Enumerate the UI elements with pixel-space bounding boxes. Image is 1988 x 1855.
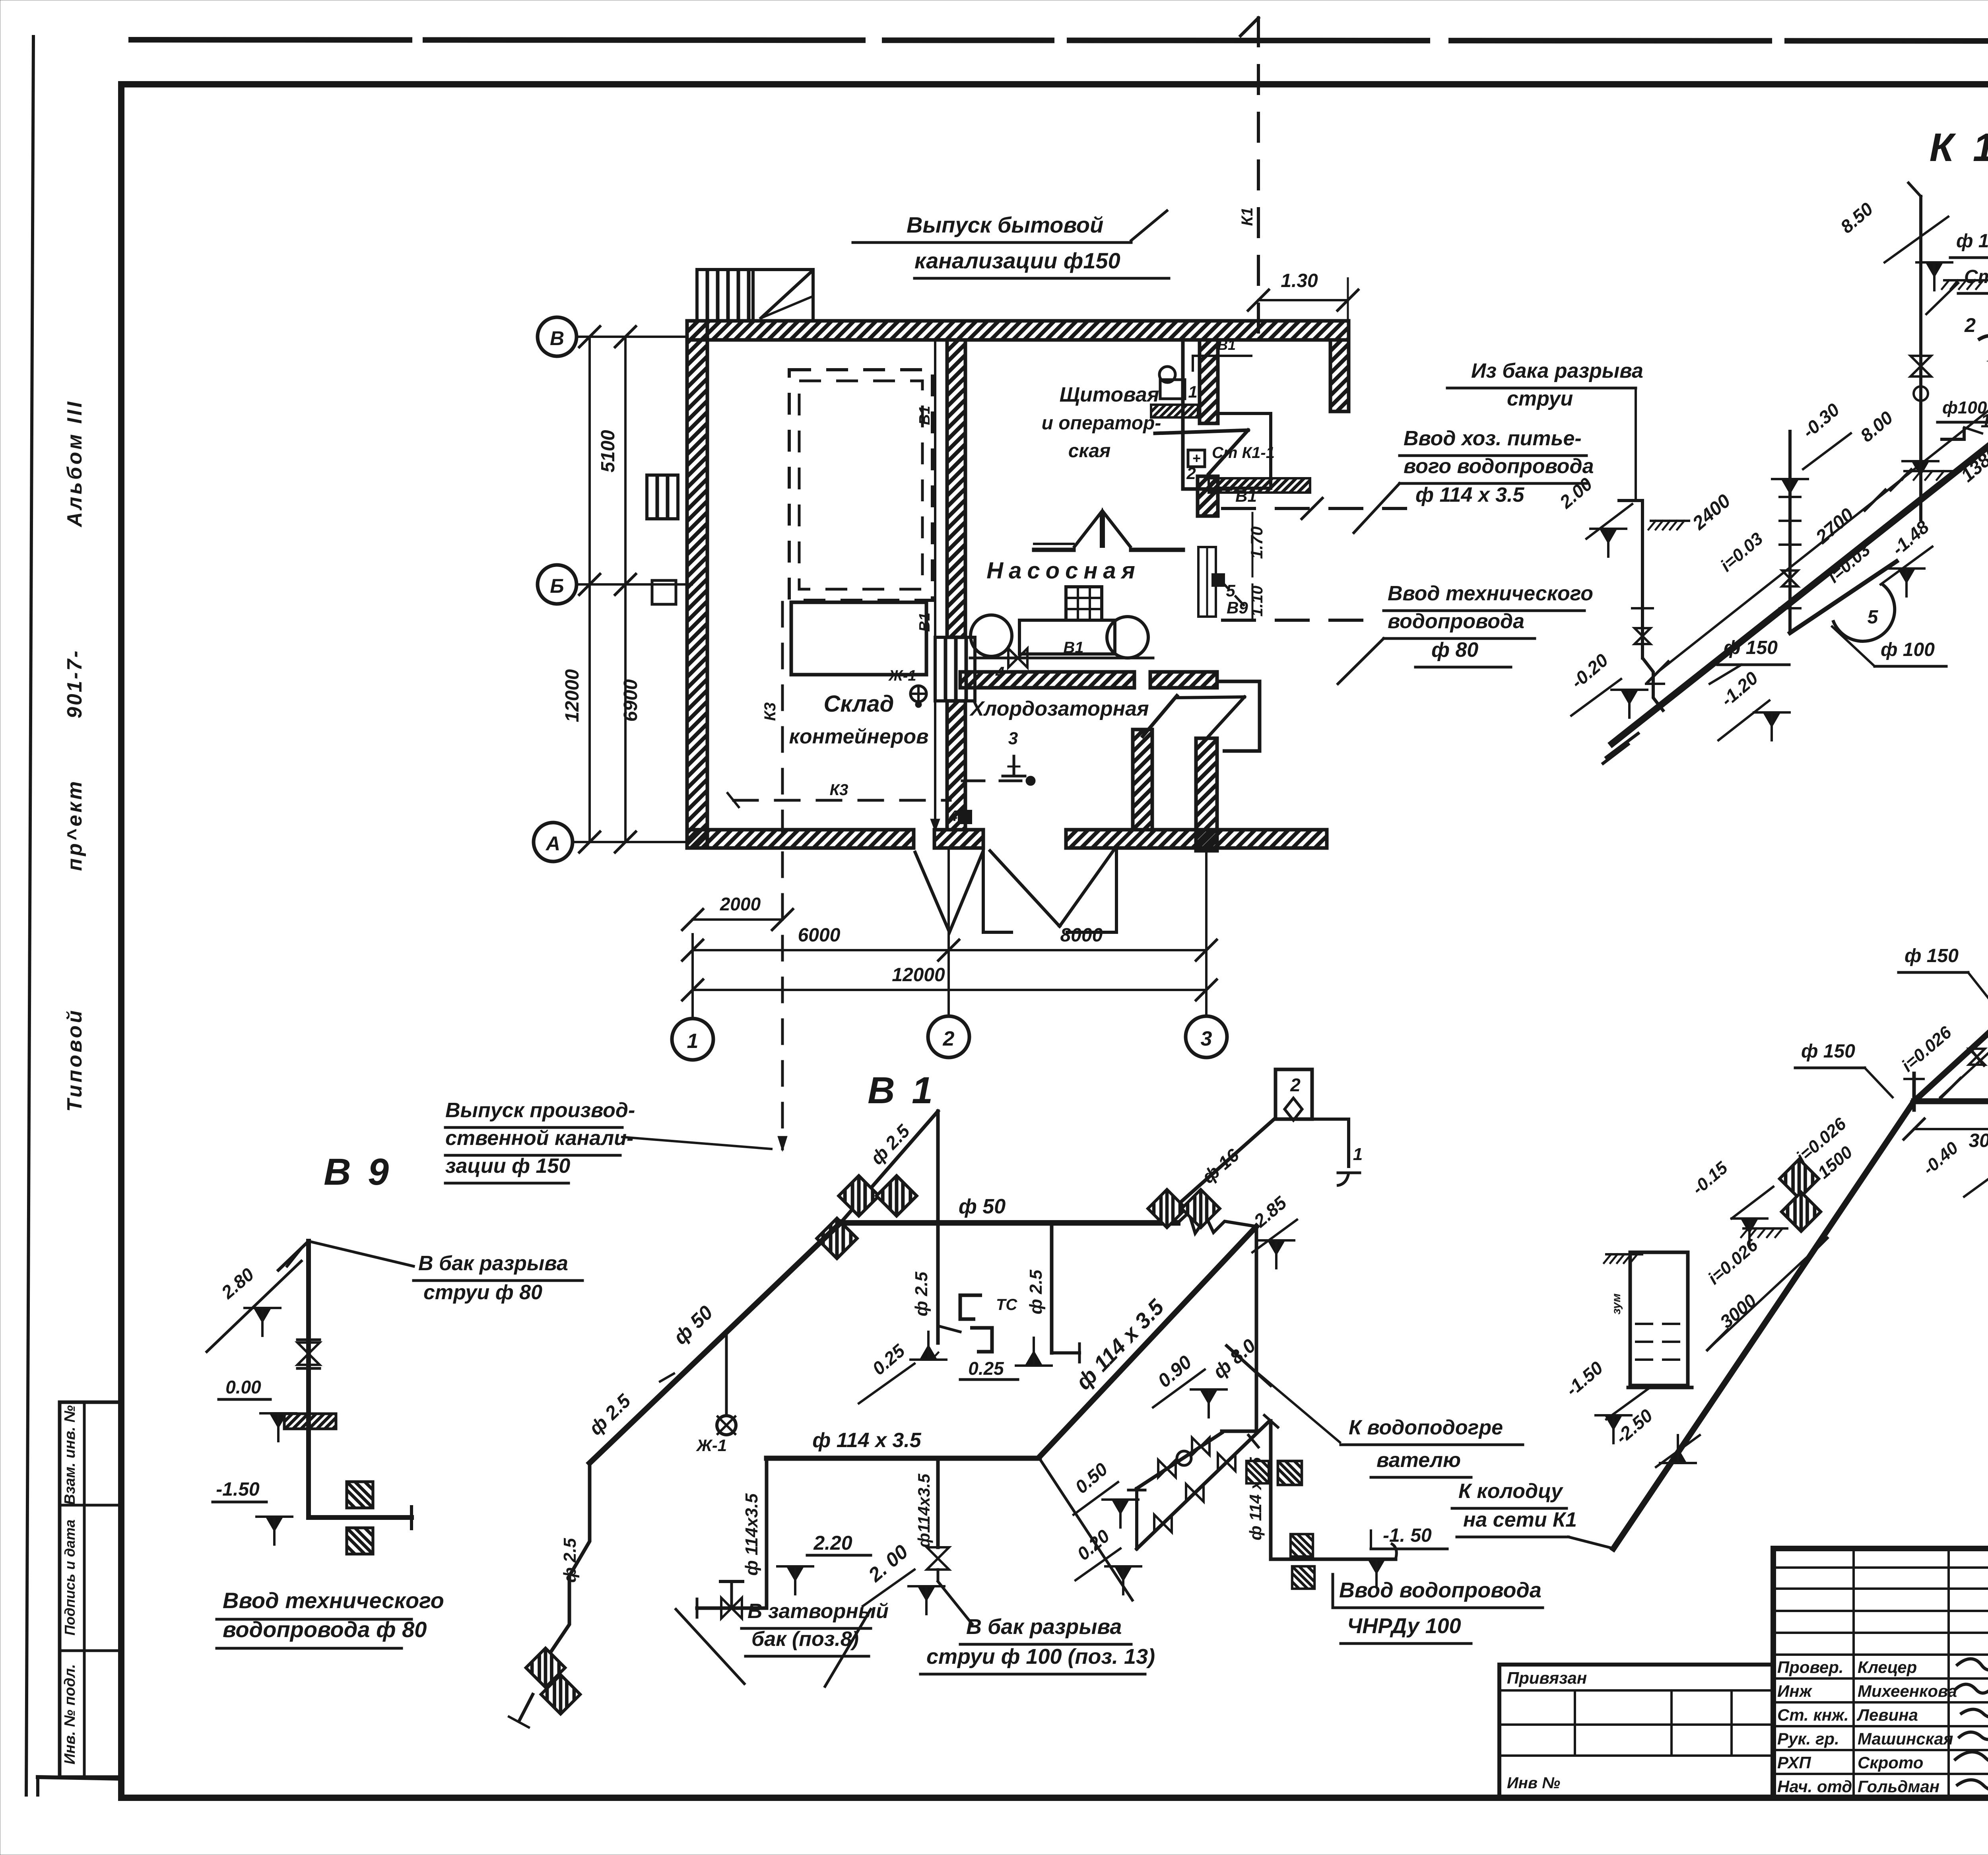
svg-text:Типовой: Типовой <box>63 1008 86 1112</box>
left dim ticks <box>579 326 600 347</box>
svg-text:Инв. № подл.: Инв. № подл. <box>62 1664 78 1765</box>
K3 horizontal pipe <box>1914 1098 1988 1104</box>
svg-text:1.30: 1.30 <box>1281 270 1318 291</box>
K3 tee at junction <box>1912 1073 1916 1110</box>
B1 leader v zatvorny right <box>825 1609 871 1686</box>
svg-text:канализации ф150: канализации ф150 <box>914 248 1120 273</box>
axis circle 3 <box>1186 1016 1227 1058</box>
plan bottom-right wall <box>1196 738 1217 851</box>
svg-text:3000: 3000 <box>1969 1130 1988 1151</box>
B1 valve assembly bottom left <box>697 1607 767 1610</box>
svg-text:ф 100: ф 100 <box>1956 231 1988 252</box>
B1 flag box 2 <box>1276 1069 1312 1119</box>
svg-text:вателю: вателю <box>1376 1449 1461 1472</box>
plan pump right <box>1107 617 1148 658</box>
svg-text:К колодцу: К колодцу <box>1458 1480 1564 1503</box>
svg-text:и оператор-: и оператор- <box>1042 413 1161 434</box>
plan interior wall pump/panel rooms <box>1034 548 1074 552</box>
B1 second riser bottom elbow <box>1052 1351 1079 1354</box>
axis stem 2 <box>947 848 950 1016</box>
svg-text:3: 3 <box>1201 1027 1212 1050</box>
svg-text:1: 1 <box>687 1030 699 1053</box>
svg-text:Привязан: Привязан <box>1507 1669 1587 1687</box>
plan top-left chimney block <box>697 270 753 321</box>
svg-text:К водоподогре: К водоподогре <box>1349 1416 1503 1439</box>
plan K1 outlet arrow <box>1241 18 1258 36</box>
K1 riser top hook <box>1908 183 1921 196</box>
B1 f16 hatch arrows <box>1148 1189 1186 1228</box>
axis circle V <box>538 317 577 356</box>
callout leader vvod khoz <box>1354 483 1400 533</box>
B1 entry tick <box>1332 1574 1334 1606</box>
svg-text:К1: К1 <box>1239 208 1256 226</box>
svg-text:водопровода ф 80: водопровода ф 80 <box>223 1617 427 1642</box>
B1 left lower vertical <box>765 1458 769 1608</box>
svg-text:Ввод водопровода: Ввод водопровода <box>1339 1578 1541 1602</box>
svg-text:ф 150: ф 150 <box>1801 1041 1855 1062</box>
svg-text:ЧНРДу 100: ЧНРДу 100 <box>1347 1614 1461 1638</box>
svg-text:А: А <box>545 832 560 855</box>
K3 main diagonal <box>1613 1101 1914 1548</box>
svg-text:В9: В9 <box>1227 598 1248 617</box>
plan K3 arrow bottom <box>778 1136 787 1151</box>
plan K3 dashed horizontal <box>734 799 950 802</box>
K3 branch diagonal to reservoir <box>1914 962 1988 1101</box>
B1 left tail <box>546 1463 590 1660</box>
svg-text:ственной канали-: ственной канали- <box>445 1127 633 1150</box>
plan K3 dashed riser vertical <box>781 602 784 1149</box>
svg-text:В1: В1 <box>1235 487 1257 505</box>
svg-text:ТС: ТС <box>996 1296 1017 1314</box>
svg-text:ф 114 х 3.5: ф 114 х 3.5 <box>812 1429 922 1452</box>
axis circle 2 <box>928 1016 969 1058</box>
bottom dim line 12000 <box>693 989 1206 991</box>
plan tap Zh-1 symbol <box>911 686 926 702</box>
plan inner room partition <box>1181 342 1185 489</box>
svg-text:ф 2.5: ф 2.5 <box>560 1538 580 1583</box>
svg-text:струи: струи <box>1507 387 1573 410</box>
svg-text:РХП: РХП <box>1777 1753 1811 1772</box>
svg-text:Скрото: Скрото <box>1858 1753 1923 1772</box>
plan pump room south wall <box>960 672 1134 688</box>
K1 main pipe diagonal <box>1612 260 1988 743</box>
plan break line W <box>914 851 983 932</box>
axis stem 3 <box>1205 848 1208 1016</box>
plan right wall of top room <box>1330 340 1349 411</box>
plan top wall <box>687 321 1349 340</box>
svg-text:ф 150: ф 150 <box>1724 637 1778 658</box>
svg-text:1.10: 1.10 <box>1248 586 1266 617</box>
plan B1 pipe top room dashed <box>1193 356 1252 372</box>
B1 entry crossing squares upper <box>1246 1461 1269 1483</box>
svg-text:-1.50: -1.50 <box>216 1479 260 1500</box>
svg-text:пр^ект: пр^ект <box>63 779 86 871</box>
svg-text:ф 2.5: ф 2.5 <box>912 1271 931 1316</box>
plan right wall mid <box>1198 476 1218 516</box>
B9 end tick <box>410 1507 413 1529</box>
plan pump left <box>971 615 1012 656</box>
K3 reservoir <box>1630 1252 1688 1385</box>
axis circle A <box>534 823 573 862</box>
svg-text:В1: В1 <box>916 613 933 632</box>
svg-text:Инж: Инж <box>1777 1682 1813 1700</box>
plan chlorine room floor drain <box>1013 756 1015 776</box>
frame bottom extension line <box>38 1777 121 1779</box>
svg-text:К3: К3 <box>761 702 779 721</box>
plan bottom porch <box>983 848 1013 932</box>
svg-text:6900: 6900 <box>620 679 641 722</box>
bottom dim line 2000 <box>693 918 782 921</box>
plan toilet floor band <box>1151 405 1198 417</box>
names table name rows <box>1773 1677 1988 1680</box>
svg-text:В 9: В 9 <box>324 1151 392 1193</box>
stamp column divider vertical <box>83 1402 86 1777</box>
svg-text:Из бака разрыва: Из бака разрыва <box>1471 359 1643 382</box>
B1 entry horizontal <box>1271 1558 1396 1561</box>
svg-text:2000: 2000 <box>720 894 761 914</box>
left dim line overall <box>588 337 591 842</box>
svg-text:2: 2 <box>1186 464 1196 483</box>
svg-text:901-7-: 901-7- <box>63 649 86 718</box>
svg-text:В: В <box>550 327 564 349</box>
svg-text:Щитовая: Щитовая <box>1060 383 1159 406</box>
svg-text:вого водопровода: вого водопровода <box>1404 455 1594 478</box>
K1 riser A bottom join <box>1642 658 1664 712</box>
plan top-left porch door leaf <box>761 272 811 318</box>
B1 f16 diagonal <box>1169 1118 1276 1213</box>
svg-text:Хлордозаторная: Хлордозаторная <box>969 697 1149 720</box>
svg-text:Б: Б <box>550 575 564 597</box>
plan toilet <box>1160 380 1185 399</box>
plan bottom-right door leaf <box>1176 697 1244 698</box>
plan dashed K1 to B9 <box>1221 580 1250 612</box>
stamp column box <box>60 1402 121 1777</box>
svg-text:ф 150: ф 150 <box>1905 945 1959 966</box>
svg-text:Склад: Склад <box>824 691 894 717</box>
plan top-right door leafs <box>1155 430 1248 433</box>
axis line B <box>577 583 692 586</box>
left dim extension lines <box>580 841 625 843</box>
K1 riser A vertical <box>1641 501 1644 658</box>
privyazan table <box>1499 1663 1773 1667</box>
svg-text:В1: В1 <box>1217 337 1236 353</box>
plan storage small block on left wall <box>652 580 676 604</box>
svg-text:ф 2.5: ф 2.5 <box>1026 1269 1046 1314</box>
B1 leader v bak right <box>1039 1458 1132 1600</box>
plan K3 left end tick <box>728 793 739 807</box>
axis circle B <box>538 565 577 604</box>
svg-text:струи ф 100 (поз. 13): струи ф 100 (поз. 13) <box>926 1645 1155 1669</box>
stamp divider 2 <box>60 1649 121 1652</box>
plan bottom wall mid segment <box>934 830 983 848</box>
svg-text:Насосная: Насосная <box>986 558 1141 584</box>
plan right entry B9 dashed <box>1223 619 1380 622</box>
plan sanuzel hatched sill <box>1209 478 1310 493</box>
B1 riser vertical <box>936 1111 940 1343</box>
K1 riser B vertical <box>1788 431 1792 633</box>
B1 riser top diagonal f25 <box>841 1111 938 1223</box>
svg-text:8000: 8000 <box>1060 925 1103 946</box>
svg-text:Левина: Левина <box>1856 1706 1918 1724</box>
K3 leader k kolodtsu <box>1569 1537 1613 1548</box>
svg-text:0.25: 0.25 <box>968 1358 1004 1379</box>
svg-text:В бак разрыва: В бак разрыва <box>966 1615 1122 1639</box>
B1 step from box <box>1312 1119 1349 1168</box>
plan storage dashed container area outer <box>789 370 932 600</box>
plan chlorine room right wall <box>1133 730 1152 830</box>
stamp divider 1 <box>60 1504 121 1507</box>
B1 right vertical from zigzag <box>1255 1226 1258 1431</box>
axis line A <box>573 841 687 843</box>
K1 riser valve <box>1910 356 1931 366</box>
B9 floor slab <box>284 1414 336 1429</box>
svg-text:ф 100: ф 100 <box>1881 639 1935 660</box>
svg-text:Альбом III: Альбом III <box>63 400 86 528</box>
plan chlorinator unit <box>1066 587 1102 620</box>
plan right wall upper <box>1200 340 1218 423</box>
plan window right <box>1198 547 1216 617</box>
K1 riser A top elbow <box>1619 499 1642 502</box>
bottom dim extension lines <box>692 920 693 1060</box>
svg-text:3: 3 <box>1008 729 1018 748</box>
K1 riser A fittings <box>1635 628 1650 636</box>
svg-text:Ж-1: Ж-1 <box>696 1436 727 1455</box>
svg-text:водопровода: водопровода <box>1388 610 1524 633</box>
svg-text:2: 2 <box>943 1027 955 1050</box>
plan pump bench <box>1019 620 1115 654</box>
svg-text:Ст. кнж.: Ст. кнж. <box>1777 1706 1849 1724</box>
plan storage dashed container area inner <box>799 381 922 589</box>
svg-text:зум: зум <box>1610 1293 1623 1314</box>
B1 tail end <box>519 1694 533 1721</box>
plan bottom porch door leaf <box>990 851 1060 926</box>
svg-text:5100: 5100 <box>598 430 619 472</box>
names table thin rows <box>1773 1566 1988 1569</box>
paper edge left line <box>26 37 33 1795</box>
K1 end hatch bottom-left <box>1603 744 1628 763</box>
B1 long left diagonal <box>590 1223 841 1463</box>
svg-text:контейнеров: контейнеров <box>789 725 928 748</box>
svg-text:К 1: К 1 <box>1930 125 1988 170</box>
bottom dim line 6000 8000 <box>693 949 1206 951</box>
svg-text:12000: 12000 <box>892 964 945 986</box>
K1 pipe end tick <box>1606 733 1638 757</box>
svg-text:Ст К1-1: Ст К1-1 <box>1212 444 1275 462</box>
B1 funnel <box>927 1547 949 1558</box>
plan bottom wall right segment <box>1066 830 1327 848</box>
svg-text:Нач. отд: Нач. отд <box>1777 1777 1852 1796</box>
plan inner partition horizontal <box>1183 487 1231 491</box>
names table vertical dividers <box>1852 1548 1855 1798</box>
svg-text:Ввод хоз. питье-: Ввод хоз. питье- <box>1404 427 1582 450</box>
B1 assembly upper rail <box>1137 1433 1222 1488</box>
plan right entry B1 dashed <box>1223 507 1406 510</box>
svg-text:1: 1 <box>1353 1145 1363 1164</box>
svg-text:0.00: 0.00 <box>225 1377 261 1397</box>
svg-text:зации ф 150: зации ф 150 <box>445 1155 570 1178</box>
K1 fitting at ground <box>1940 427 1964 439</box>
svg-text:В 1: В 1 <box>868 1069 936 1112</box>
leader to K3 outlet <box>622 1137 771 1149</box>
B1 tap Zh-1 <box>725 1334 728 1415</box>
paper edge top dashed line <box>131 40 1988 41</box>
svg-text:Рук. гр.: Рук. гр. <box>1777 1729 1839 1748</box>
axis line V <box>577 336 687 338</box>
svg-text:Ст К1-1: Ст К1-1 <box>1964 266 1988 287</box>
svg-text:1: 1 <box>1981 411 1988 432</box>
svg-text:ская: ская <box>1068 440 1111 462</box>
svg-text:4: 4 <box>949 808 957 825</box>
plan K1 dashed outlet line <box>1257 18 1260 340</box>
svg-text:Выпуск бытовой: Выпуск бытовой <box>907 212 1103 237</box>
B1 assembly shelf <box>1222 1430 1256 1433</box>
svg-text:В1: В1 <box>1063 639 1083 656</box>
svg-text:В1: В1 <box>916 406 933 425</box>
svg-text:Машинская: Машинская <box>1858 1729 1953 1748</box>
plan bottom-right porch <box>1217 681 1260 751</box>
B1 tail hatch squares <box>526 1648 565 1688</box>
B9 top elbow tick <box>278 1241 309 1270</box>
svg-text:Ввод технического: Ввод технического <box>223 1588 444 1613</box>
K1 fitting 5 arc <box>1833 584 1895 641</box>
B9 wall crossing squares <box>347 1482 373 1508</box>
svg-text:5: 5 <box>1868 607 1879 628</box>
plan fixture 5 square <box>1213 574 1224 586</box>
svg-text:4: 4 <box>995 664 1004 681</box>
svg-text:струи ф 80: струи ф 80 <box>423 1281 542 1304</box>
plan stair block in middle wall <box>935 637 975 701</box>
svg-text:ф 114х3.5: ф 114х3.5 <box>742 1493 761 1576</box>
B1 TC heater <box>960 1295 982 1319</box>
B9 valve <box>297 1343 320 1354</box>
plan left wall <box>687 321 707 848</box>
svg-text:Инв №: Инв № <box>1507 1774 1560 1792</box>
svg-text:В бак разрыва: В бак разрыва <box>418 1252 568 1275</box>
svg-text:-1. 50: -1. 50 <box>1383 1525 1432 1546</box>
plan fixture room top-right: sink <box>1188 450 1205 467</box>
B1 f80 branch cross <box>1227 1346 1271 1385</box>
K1 dim chain line <box>1658 263 1988 672</box>
K1 leader iz baka <box>1635 388 1637 501</box>
B9 bottom horizontal <box>309 1515 412 1520</box>
plan top-left porch <box>753 270 813 321</box>
plan top-right porch small <box>1218 413 1271 488</box>
sewage leader diagonal <box>1131 211 1167 241</box>
K1 riser St K1-1 vertical <box>1919 196 1922 520</box>
plan bottom wall left segment <box>687 830 914 848</box>
B1 entry squares vvod <box>1291 1534 1313 1556</box>
svg-text:6000: 6000 <box>798 925 841 946</box>
plan pump pipe valve <box>1008 648 1018 667</box>
K3 dim line 3000+3000 <box>1914 1128 1988 1130</box>
plan middle wall upper <box>947 340 965 637</box>
signatures scrawls <box>1956 1659 1988 1670</box>
svg-text:Ввод технического: Ввод технического <box>1388 582 1593 605</box>
B1 entry vertical f114 <box>1269 1421 1273 1559</box>
B1 small tick on diagonal <box>660 1374 674 1382</box>
plan storage solid container block <box>791 602 926 675</box>
dim 1.30 <box>1258 299 1348 301</box>
B1 hatch arrows left <box>839 1176 879 1216</box>
B1 lower f114 horizontal <box>767 1456 1039 1461</box>
svg-text:бак (поз.8): бак (поз.8) <box>751 1628 859 1651</box>
svg-text:2.20: 2.20 <box>813 1532 852 1554</box>
svg-text:ф 50: ф 50 <box>959 1195 1006 1218</box>
title block outer <box>1773 1548 1988 1798</box>
svg-text:на сети К1: на сети К1 <box>1463 1508 1577 1531</box>
B1 mid vertical to funnel <box>936 1458 940 1547</box>
svg-text:5: 5 <box>1226 581 1235 600</box>
plan ladder block left <box>647 475 678 519</box>
plan chlorinator room door leaf <box>1143 696 1177 736</box>
svg-text:ф114х3.5: ф114х3.5 <box>914 1473 933 1548</box>
svg-text:1.70: 1.70 <box>1247 526 1266 559</box>
B9 leader to text <box>309 1241 414 1266</box>
plan K3 dashed horizontal right <box>962 780 1021 782</box>
K3 gate on branch <box>1970 1049 1984 1065</box>
plan pump room pipe B1 <box>970 657 1153 660</box>
plan pump room south wall right piece <box>1150 672 1217 688</box>
svg-text:Взам. инв. №: Взам. инв. № <box>62 1405 78 1505</box>
B1 f50 horizontal pipe <box>841 1220 1178 1226</box>
B1 leader to vodopodogrev <box>1258 1374 1340 1442</box>
B1 leader v bak left <box>938 1581 972 1624</box>
B1 second riser f25 <box>1050 1223 1054 1353</box>
plan middle wall lower <box>947 701 965 830</box>
svg-text:2: 2 <box>1290 1075 1301 1095</box>
axis circle 1 <box>672 1019 713 1060</box>
svg-text:Гольдман: Гольдман <box>1858 1777 1939 1796</box>
svg-text:1: 1 <box>1188 382 1197 401</box>
plan panel room door swing <box>1074 512 1101 548</box>
K1 second pipe diagonal <box>1790 561 1897 633</box>
B1 leader v zatvorny left <box>676 1609 744 1684</box>
axis stem 1 <box>691 934 694 1019</box>
svg-text:ф 114 х 3.5: ф 114 х 3.5 <box>1415 483 1525 506</box>
B9 vertical pipe <box>306 1241 311 1517</box>
svg-text:Выпуск производ-: Выпуск производ- <box>445 1099 635 1122</box>
svg-text:Михеенкова: Михеенкова <box>1858 1682 1957 1700</box>
svg-text:12000: 12000 <box>562 669 583 722</box>
plan B1 riser arrow bottom <box>930 819 940 832</box>
svg-text:Подпись и дата: Подпись и дата <box>62 1519 78 1636</box>
callout leader vvod tekh <box>1338 638 1384 684</box>
B1 right zigzag <box>1178 1213 1256 1233</box>
K3 crossing squares on diagonal <box>1780 1159 1819 1199</box>
svg-text:Ж-1: Ж-1 <box>888 667 916 684</box>
svg-text:Провер.: Провер. <box>1777 1658 1844 1676</box>
svg-text:К3: К3 <box>830 781 848 799</box>
plan B1 riser line <box>934 342 936 829</box>
K1 riser B fittings <box>1780 496 1800 498</box>
B1 assembly lower rail <box>1137 1422 1268 1549</box>
B1 assembly left vertical <box>1135 1488 1138 1549</box>
B1 long diagonal f114 right <box>1039 1226 1256 1457</box>
svg-text:2: 2 <box>1964 314 1976 336</box>
left dim line segments <box>624 337 627 842</box>
svg-text:ф 80: ф 80 <box>1431 638 1478 662</box>
svg-text:Клецер: Клецер <box>1858 1658 1917 1676</box>
